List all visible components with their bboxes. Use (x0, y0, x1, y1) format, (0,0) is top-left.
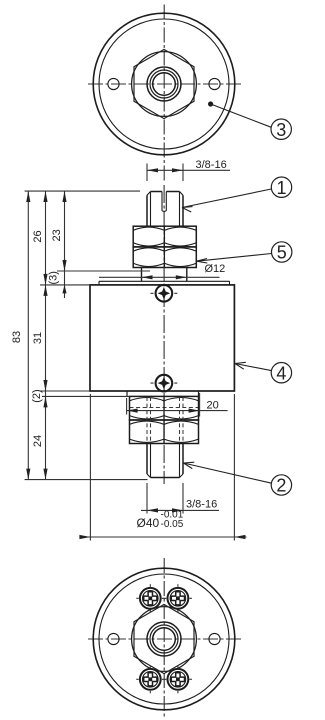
stud slot (162, 192, 166, 212)
upper nut 2 (133, 247, 196, 268)
svg-text:31: 31 (32, 332, 44, 344)
svg-text:Ø12: Ø12 (205, 263, 226, 275)
leader balloon 5 (197, 254, 272, 262)
extension line body bottom (40, 390, 90, 392)
arrows 24 (43, 396, 47, 407)
bottom stud (147, 444, 183, 475)
svg-text:24: 24 (32, 435, 44, 447)
side view axis centerline (163, 185, 165, 484)
bottom view outer circle (93, 568, 235, 710)
dim line 23 (64, 191, 66, 271)
balloon 3 (271, 119, 291, 139)
bottom view left hole (108, 633, 119, 644)
arrows 83 (26, 191, 30, 202)
top view horizontal centerline (88, 83, 241, 85)
screw top-left (136, 584, 164, 612)
leader balloon 2 (184, 463, 272, 483)
screw bottom-left (136, 665, 164, 693)
bottom view horizontal centerline (88, 638, 241, 640)
washer line (99, 281, 230, 285)
svg-text:(2): (2) (31, 389, 43, 402)
lower nut 1 (130, 396, 199, 420)
arrows 31 (43, 285, 47, 296)
svg-text:-0.05: -0.05 (161, 519, 184, 530)
dim line (3) outside arrows stems (64, 258, 66, 298)
body (90, 285, 234, 391)
extension line left (146, 164, 148, 182)
extension line lower nut top (42, 395, 130, 397)
svg-text:26: 26 (32, 230, 44, 242)
bottom view inner circle (99, 574, 229, 704)
screw top-right (164, 584, 192, 612)
leader dot for balloon 3 (208, 101, 213, 106)
top view vertical centerline (163, 5, 165, 182)
svg-text:1: 1 (276, 178, 286, 198)
svg-text:Ø40: Ø40 (137, 516, 160, 530)
top stud (147, 195, 183, 226)
svg-text:(3): (3) (48, 271, 60, 284)
dim line 24 (45, 396, 47, 479)
top view inner circle (99, 19, 229, 149)
dim line 83 (27, 191, 29, 480)
leader balloon 1 (182, 189, 271, 208)
extension line boss top (57, 270, 150, 272)
hidden stud in lower nuts (147, 397, 183, 443)
arrows 26 (43, 191, 47, 202)
arrows 23 (62, 191, 66, 202)
balloon 1 (271, 177, 291, 197)
svg-text:23: 23 (51, 229, 63, 241)
bottom view right hole (209, 633, 220, 644)
dim line 31 (45, 285, 47, 391)
leader balloon 4 (235, 364, 271, 371)
dimension line (147, 169, 230, 171)
top view right hole (209, 78, 220, 89)
svg-text:83: 83 (11, 331, 23, 343)
arrows (3) (62, 285, 66, 294)
screw bottom-right (164, 665, 192, 693)
lower nut 2 (130, 420, 199, 444)
boss dia 12 (142, 268, 187, 282)
balloon 4 (271, 363, 291, 383)
lower boss hidden outline (130, 407, 199, 409)
extension line right (182, 164, 184, 182)
svg-text:3/8-16: 3/8-16 (186, 499, 217, 511)
top view left hole (108, 78, 119, 89)
top view center hex nut (132, 49, 197, 118)
leader line to balloon 3 (211, 104, 272, 127)
dim line 26 (45, 191, 47, 285)
extension line body top (40, 284, 90, 286)
svg-text:2: 2 (276, 476, 286, 496)
svg-text:5: 5 (277, 243, 287, 263)
upper body screw (151, 285, 178, 302)
svg-text:3: 3 (276, 120, 286, 140)
bottom view center hex nut (132, 604, 197, 673)
extension line stud top (25, 190, 140, 192)
top view outer circle (93, 13, 235, 155)
lower body screw (151, 375, 178, 392)
svg-text:3/8-16: 3/8-16 (196, 159, 227, 171)
balloon 5 (272, 242, 292, 262)
extension line stud bottom (25, 479, 148, 481)
svg-text:20: 20 (207, 400, 219, 412)
upper nut 1 (133, 226, 196, 247)
balloon 2 (271, 475, 291, 495)
lower boss visible sliver (127, 391, 199, 396)
dim line (2) outside arrows stems (45, 377, 47, 410)
svg-text:4: 4 (276, 363, 286, 383)
bottom view vertical centerline (163, 558, 165, 719)
